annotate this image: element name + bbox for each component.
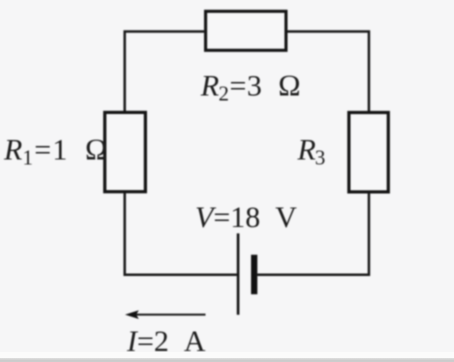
bottom gray divider band xyxy=(0,358,454,362)
wire right lower segment xyxy=(257,193,369,275)
battery V1 long plate xyxy=(237,233,240,314)
resistor R1 xyxy=(105,112,146,191)
wire top-left segment xyxy=(125,32,204,112)
current arrow shaft xyxy=(136,314,206,316)
svg-text:R1=1 Ω: R1=1 Ω xyxy=(3,134,109,170)
bottom white strip xyxy=(0,352,454,358)
current arrow head xyxy=(125,310,139,319)
wire left lower segment xyxy=(125,193,237,275)
svg-text:R3: R3 xyxy=(297,134,326,170)
resistor R3 xyxy=(349,113,388,192)
resistor R2 xyxy=(206,11,286,50)
svg-text:V=18 V: V=18 V xyxy=(195,201,297,234)
svg-text:R2=3 Ω: R2=3 Ω xyxy=(200,70,302,106)
wire top-right segment xyxy=(287,32,369,112)
battery V1 short thick plate xyxy=(251,255,257,295)
